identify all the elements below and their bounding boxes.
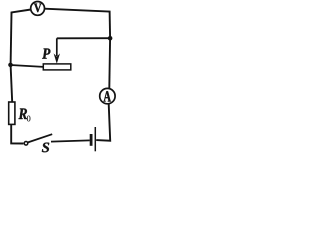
wire ammeter to bottom-right corner xyxy=(96,104,110,141)
wire right vertical to ammeter xyxy=(108,38,111,89)
switch S1 blade xyxy=(27,134,52,142)
label S xyxy=(42,143,49,153)
wire wiper to right junction xyxy=(57,37,110,39)
node junction left xyxy=(8,63,13,68)
rheostat P body xyxy=(43,64,71,70)
switch S1 pivot xyxy=(24,142,28,146)
wire junction to rheostat xyxy=(11,65,44,67)
resistor R0 xyxy=(9,102,15,124)
battery B1 plate short thick xyxy=(90,134,93,146)
wire left vertical upper xyxy=(10,13,13,65)
wire top-right horizontal xyxy=(44,9,109,12)
battery B1 plate long thin xyxy=(94,127,96,151)
voltmeter V1 xyxy=(31,1,45,15)
rheostat wiper arrow stem xyxy=(56,38,58,56)
rheostat wiper arrowhead xyxy=(54,53,60,63)
wire switch to bottom-left corner xyxy=(11,124,23,143)
wire right vertical upper xyxy=(109,11,112,39)
label P xyxy=(42,49,50,59)
wire resistor to left junction xyxy=(11,65,13,102)
ammeter A1 xyxy=(100,88,115,103)
label R0 xyxy=(19,109,28,120)
wire top-left horizontal xyxy=(12,10,31,14)
node junction right xyxy=(108,36,113,41)
wire battery to switch fixed contact xyxy=(51,140,90,141)
